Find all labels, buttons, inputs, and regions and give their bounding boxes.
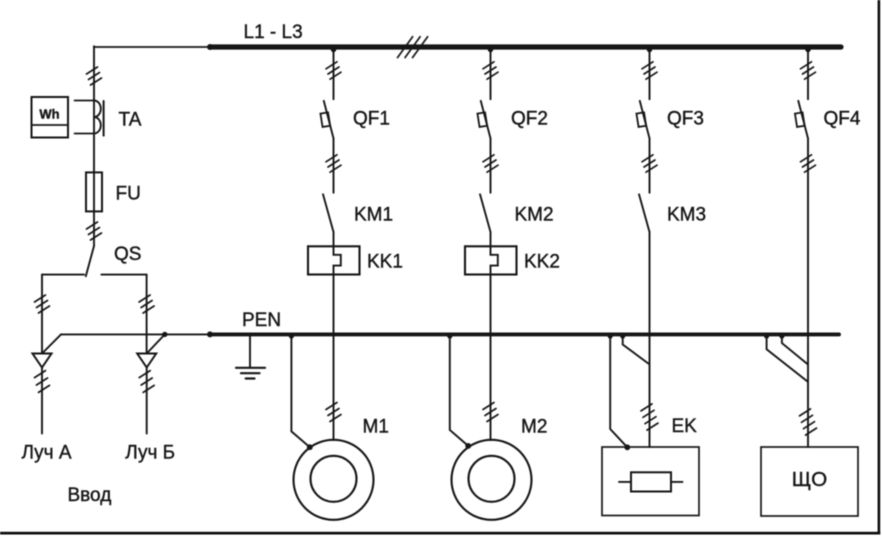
phase slashes above M1	[326, 403, 341, 422]
wire Wh stub upper	[75, 100, 95, 102]
phase slashes below QF2	[483, 155, 498, 172]
node PEN tap 2 to panel	[779, 333, 784, 338]
svg-text:M2: M2	[521, 417, 547, 438]
svg-text:KM3: KM3	[667, 205, 706, 226]
frame bottom border	[0, 532, 880, 535]
phase slashes above QF3	[642, 62, 657, 79]
phase slashes below arrow B	[139, 371, 154, 393]
svg-text:KK2: KK2	[524, 252, 560, 273]
wire KM1 to KK1	[333, 232, 335, 246]
arrow feeder A	[33, 354, 52, 368]
phase slashes above QS	[87, 222, 102, 240]
phase slashes above QF4	[801, 62, 816, 79]
thermal relay KK1 box	[308, 246, 360, 274]
svg-text:QF4: QF4	[824, 109, 861, 130]
wire QF1 to KM1	[333, 138, 335, 192]
phase slashes below QF1	[326, 155, 341, 172]
svg-text:QS: QS	[114, 244, 141, 265]
phase slashes below arrow A	[35, 371, 50, 393]
node bus tap QF2	[488, 47, 493, 52]
node PE at M1 frame	[307, 444, 313, 450]
phase slashes below QF3	[642, 155, 657, 172]
node PEN tap N to EK	[620, 333, 625, 338]
node PEN tap to M2	[447, 333, 452, 338]
motor M2 outer	[452, 440, 532, 520]
wire QF2 to KM2	[490, 138, 492, 192]
wire PE conductor to M2	[450, 335, 468, 446]
ground symbol	[249, 336, 251, 367]
motor M1 outer	[294, 440, 374, 520]
QF2 release rectangle	[477, 112, 487, 127]
node bus tap QF3	[647, 47, 652, 52]
svg-text:Wh: Wh	[39, 107, 59, 122]
node PE at EK box	[624, 444, 630, 450]
phase slashes above panel	[800, 409, 817, 435]
wire branch B vertical	[146, 275, 148, 354]
QF3 release rectangle	[636, 112, 646, 127]
thermal relay KK2 box	[465, 246, 517, 274]
svg-text:L1 - L3: L1 - L3	[244, 22, 303, 43]
svg-text:KK1: KK1	[367, 252, 403, 273]
lighting panel box	[761, 447, 858, 516]
phase slashes branch B	[139, 295, 154, 313]
wire KK1 to motor M1	[333, 275, 335, 441]
svg-text:EK: EK	[672, 416, 698, 437]
contactor KM2 blade	[480, 194, 491, 232]
wire QF3 to KM3	[649, 138, 651, 192]
wire bus to QF1	[333, 47, 335, 99]
svg-text:QF2: QF2	[511, 109, 548, 130]
phase slashes above QF2	[483, 62, 498, 79]
wire left column vertical	[93, 46, 95, 246]
svg-text:KM2: KM2	[515, 205, 554, 226]
wire bus to QF3	[649, 47, 651, 99]
current transformer TA winding	[94, 101, 101, 134]
wire below arrow A	[41, 368, 43, 434]
QF1 release rectangle	[320, 112, 330, 127]
wire KM3 to EK	[649, 232, 651, 447]
node PE at M2 frame	[465, 443, 471, 449]
phase slashes below QF4	[801, 155, 816, 172]
frame right border	[878, 0, 881, 535]
wire bus to QF4	[807, 47, 809, 99]
node PEN tap PE to EK	[608, 333, 613, 338]
svg-text:QF3: QF3	[667, 109, 704, 130]
3-phase slashes on bus L1-L3	[398, 37, 428, 58]
wire N diagonal to panel feeder	[782, 335, 808, 365]
wire below arrow B	[146, 368, 148, 434]
meter Wh box	[32, 97, 69, 138]
wire PE diagonal to panel feeder	[767, 335, 808, 382]
QS right horizontal	[101, 274, 146, 276]
node bus tap QF1	[331, 47, 336, 52]
wire diagonal to arrow A	[43, 334, 62, 353]
wire Wh stub lower	[75, 133, 95, 135]
QF4 release rectangle	[795, 112, 805, 127]
circuit breaker QF3 blade	[640, 101, 650, 138]
wire diagonal to arrow B	[147, 334, 165, 353]
bus L1-L3	[210, 44, 841, 49]
node PEN tap to M1	[289, 333, 294, 338]
heater EK box	[602, 447, 699, 516]
svg-text:ЩО: ЩО	[792, 468, 828, 491]
circuit breaker QF1 blade	[324, 101, 334, 138]
switch QS blade	[86, 246, 94, 276]
circuit breaker QF2 blade	[481, 101, 491, 138]
svg-text:KM1: KM1	[354, 205, 393, 226]
node bus tap QF4	[805, 47, 810, 52]
motor M1 inner	[311, 456, 357, 502]
wire N diagonal to EK feeder	[623, 335, 650, 364]
wire QF4 to panel	[807, 138, 809, 447]
wire PEN feeder horizontal	[61, 333, 210, 335]
svg-text:TA: TA	[119, 110, 142, 131]
QS left horizontal	[42, 274, 84, 276]
circuit breaker QF4 blade	[798, 101, 808, 138]
wire KK2 to motor M2	[490, 275, 492, 441]
wire top feeder horizontal	[94, 46, 210, 48]
wire PE conductor to EK box	[610, 335, 627, 447]
KK2 heater detour	[491, 246, 498, 274]
EK resistor element	[631, 472, 671, 491]
TA core bar	[103, 101, 105, 136]
motor M2 inner	[469, 456, 515, 502]
wire PE conductor to M1	[291, 335, 309, 447]
phase slashes branch A	[35, 295, 50, 313]
contactor KM3 blade	[639, 194, 650, 232]
wire KM2 to KK2	[490, 232, 492, 246]
svg-text:Луч А: Луч А	[22, 442, 72, 463]
svg-text:Луч Б: Луч Б	[125, 442, 175, 463]
svg-text:M1: M1	[363, 417, 389, 438]
svg-text:FU: FU	[116, 183, 141, 204]
phase slashes above EK	[641, 404, 658, 430]
bus PEN	[210, 332, 839, 336]
phase slashes above QF1	[326, 62, 341, 79]
phase slashes above M2	[483, 403, 498, 422]
arrow feeder B	[137, 354, 156, 368]
node junction on PEN feeder	[162, 332, 167, 337]
node PEN tap 1 to panel	[764, 333, 769, 338]
svg-text:QF1: QF1	[353, 109, 390, 130]
fuse FU	[86, 172, 102, 211]
node bus L1-L3 left junction	[207, 44, 213, 50]
wire bus to QF2	[490, 47, 492, 99]
svg-text:PEN: PEN	[242, 310, 281, 331]
wire branch A vertical	[41, 275, 43, 354]
svg-text:Ввод: Ввод	[68, 485, 112, 506]
KK1 heater detour	[334, 246, 341, 274]
contactor KM1 blade	[323, 194, 334, 232]
phase slashes left column top	[87, 67, 102, 85]
node PEN left end junction	[207, 331, 213, 337]
